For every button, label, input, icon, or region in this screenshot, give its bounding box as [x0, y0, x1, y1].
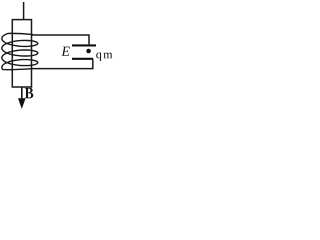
wire top lead	[23, 2, 25, 20]
label B	[25, 88, 33, 99]
arrow B head	[18, 98, 26, 109]
plate bottom	[72, 58, 93, 60]
coil L1	[2, 33, 38, 69]
wire bottom return	[33, 59, 93, 69]
core rectangle	[12, 20, 31, 87]
charge dot q	[86, 49, 91, 54]
label E	[61, 47, 69, 56]
plate top	[72, 44, 96, 46]
wire top run to plates	[31, 35, 89, 45]
label q	[96, 53, 101, 61]
arrow B shaft	[21, 87, 23, 101]
label m	[103, 53, 112, 59]
